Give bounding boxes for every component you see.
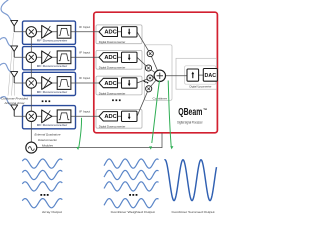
wire: antenna 1 feed + IF path into ADC — [14, 31, 137, 33]
antenna A2 — [11, 46, 18, 57]
svg-text:DAC: DAC — [205, 73, 217, 79]
wire: LO distribution rail — [30, 32, 32, 142]
label Customer Provided Antenna Array — [1, 96, 28, 105]
upconverter outer box — [176, 58, 217, 89]
svg-text:ADC: ADC — [104, 114, 117, 120]
svg-text:Customer Provided: Customer Provided — [1, 96, 28, 100]
mixer (RF downconverter 3) — [26, 78, 36, 88]
DAC — [203, 69, 217, 82]
waveform: array output row 1 — [22, 159, 62, 168]
waveform: combiner weighted output row 1 — [104, 159, 159, 168]
RF Downconverter block U2 (blue box) — [23, 47, 76, 70]
label IF Input 3 — [79, 76, 90, 80]
wire: weight multiplier 3 to summer — [150, 76, 160, 78]
wire: weight multiplier 4 to summer — [149, 76, 160, 89]
bandpass filter (RF downconverter 2) — [57, 51, 71, 64]
incoming RF wave squiggle 2 — [0, 38, 11, 46]
dots: more DDC rows — [112, 99, 121, 101]
wire: summer output to digital upconverter — [166, 75, 188, 77]
Digital Downconverter container 2 — [96, 50, 142, 69]
incoming RF wave squiggle 1 — [1, 0, 11, 21]
green arrow: summed signal to Combiner Summed Output wave — [168, 81, 173, 150]
svg-text:RF Downconverter: RF Downconverter — [37, 90, 68, 94]
QBeam DSP enclosure (red box) — [94, 12, 218, 133]
weight multiplier X4 — [146, 86, 152, 92]
label External Quadrature Downconverter Modules — [35, 133, 61, 148]
ADC 1 — [99, 27, 118, 36]
svg-text:Digital Downconverter: Digital Downconverter — [99, 40, 126, 44]
mixer (RF downconverter 1) — [26, 27, 36, 37]
svg-text:ADC: ADC — [104, 30, 117, 36]
svg-text:™: ™ — [203, 107, 207, 112]
svg-text:IF Input: IF Input — [79, 50, 90, 54]
svg-text:Antenna Array: Antenna Array — [3, 101, 25, 105]
wire: DDC3 output to weight multiplier — [137, 78, 150, 83]
local oscillator — [26, 142, 37, 153]
wire: antenna 3 feed + IF path into ADC — [14, 82, 137, 84]
dots: combiner weighted rows — [129, 194, 137, 196]
mixer (RF downconverter 2) — [26, 52, 36, 62]
svg-text:RF Downconverter: RF Downconverter — [37, 123, 68, 127]
RF Downconverter block U4 (blue box) — [23, 106, 76, 129]
svg-text:Digital Downconverter: Digital Downconverter — [99, 125, 126, 129]
bandpass filter (RF downconverter 1) — [57, 25, 71, 38]
green arrow: IF signal to Array Output waves — [76, 118, 81, 150]
RF Downconverter block U1 (blue box) — [23, 21, 76, 44]
waveform: combiner weighted output row 4 — [104, 199, 159, 208]
svg-text:IF Input: IF Input — [79, 25, 90, 29]
svg-text:Digital Signal Processor: Digital Signal Processor — [177, 121, 203, 125]
svg-text:Digital Downconverter: Digital Downconverter — [99, 66, 126, 70]
weight multiplier X2 — [145, 65, 151, 71]
callout line to antenna A3 — [13, 84, 15, 96]
callout line to antenna A1 — [8, 33, 14, 96]
ADC 3 — [99, 78, 118, 87]
callout line to antenna A2 — [12, 58, 15, 95]
wire: upconverter to DAC — [199, 74, 204, 76]
wire: LO line from oscillator to DSP — [37, 133, 162, 148]
amplifier (RF downconverter 4) — [42, 110, 52, 123]
label IF Input 4 — [79, 109, 90, 113]
decimator (downsampler) 1 — [122, 27, 138, 37]
interpolator (upsampler) — [187, 69, 199, 81]
antenna A4 — [11, 105, 18, 116]
ADC 4 — [99, 112, 118, 121]
svg-text:Digital Downconverter: Digital Downconverter — [99, 91, 126, 95]
Digital Upconverter container — [185, 66, 216, 89]
green arrow: weighted signals to Combiner Weighted Output waves — [149, 81, 160, 150]
waveform: combiner weighted output row 3 — [104, 182, 159, 191]
svg-text:Combiner Weighted Output: Combiner Weighted Output — [111, 210, 155, 214]
wire: DDC1 output to weight multiplier — [137, 32, 150, 54]
dots: more antenna rows — [42, 100, 51, 102]
amplifier (RF downconverter 1) — [42, 25, 52, 38]
svg-text:External Quadrature: External Quadrature — [35, 133, 61, 137]
svg-text:RF Downconverter: RF Downconverter — [37, 64, 68, 68]
label Combiner Summed Output — [172, 210, 215, 214]
svg-text:IF Input: IF Input — [79, 76, 90, 80]
wire: DDC4 output to weight multiplier — [137, 89, 149, 117]
wire: weight multiplier 1 to summer — [150, 54, 160, 76]
wire: DDC2 output to weight multiplier — [137, 57, 149, 68]
waveform: array output row 2 — [22, 170, 62, 179]
Combiner container — [144, 45, 172, 101]
bandpass filter (RF downconverter 3) — [57, 77, 71, 90]
svg-text:Array Output: Array Output — [42, 210, 62, 214]
wire: antenna 4 feed + IF path into ADC — [14, 115, 137, 117]
antenna A1 — [11, 20, 18, 31]
label QBeam title — [177, 107, 207, 125]
dots: array output rows — [40, 194, 48, 196]
decimator (downsampler) 4 — [122, 111, 138, 121]
svg-text:Combiner: Combiner — [153, 97, 168, 101]
decimator (downsampler) 3 — [122, 78, 138, 88]
dots between multipliers — [144, 81, 149, 84]
Digital Downconverter container 3 — [96, 76, 142, 95]
amplifier (RF downconverter 3) — [42, 77, 52, 90]
svg-text:Modules: Modules — [42, 144, 53, 148]
waveform: array output row 4 — [22, 199, 62, 208]
svg-text:Downconverter: Downconverter — [38, 138, 58, 142]
decimator (downsampler) 2 — [122, 52, 138, 62]
incoming RF wave squiggle 3 — [0, 63, 11, 71]
Digital Downconverter container 4 — [96, 109, 142, 128]
label IF Input 2 — [79, 50, 90, 54]
RF Downconverter block U3 (blue box) — [23, 72, 76, 95]
label IF Input 1 — [79, 25, 90, 29]
svg-text:IF Input: IF Input — [79, 109, 90, 113]
summing junction — [154, 70, 165, 81]
incoming RF wave squiggle 4 — [0, 97, 11, 105]
weight multiplier X1 — [147, 51, 153, 57]
mixer (RF downconverter 4) — [26, 111, 36, 121]
ADC 2 — [99, 53, 118, 62]
waveform: combiner weighted output row 2 — [104, 170, 159, 179]
svg-text:Digital Upconverter: Digital Upconverter — [190, 84, 212, 88]
bandpass filter (RF downconverter 4) — [57, 110, 71, 123]
label Array Output — [42, 210, 62, 214]
svg-text:ADC: ADC — [104, 81, 117, 87]
waveform: array output row 3 — [22, 182, 62, 191]
wire: antenna 2 feed + IF path into ADC — [14, 56, 137, 58]
Digital Downconverter container 1 — [96, 25, 142, 44]
antenna A3 — [11, 72, 18, 83]
svg-text:RF Downconverter: RF Downconverter — [37, 39, 68, 43]
waveform: combiner summed output — [165, 160, 217, 201]
svg-text:QBeam: QBeam — [178, 107, 202, 118]
amplifier (RF downconverter 2) — [42, 51, 52, 64]
svg-text:ADC: ADC — [104, 55, 117, 61]
label Combiner Weighted Output — [111, 210, 155, 214]
svg-text:Combiner Summed Output: Combiner Summed Output — [172, 210, 215, 214]
wire: weight multiplier 2 to summer — [149, 68, 160, 76]
weight multiplier X3 — [147, 75, 153, 81]
